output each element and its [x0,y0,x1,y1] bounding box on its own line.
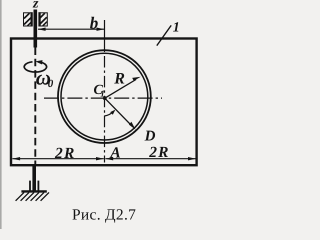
dimension b right arrow [97,28,105,31]
line C1 to D with arrow [105,98,131,125]
hole inner circle [61,53,148,140]
bottom shaft (solid) [32,165,36,191]
dimension b left arrow [38,28,46,31]
radius R arrow [105,80,136,99]
horizontal centerline [44,97,162,99]
svg-text:b: b [90,13,99,32]
svg-text:Рис. Д2.7: Рис. Д2.7 [72,206,136,223]
svg-text:2R: 2R [148,144,168,161]
ground line [21,190,46,192]
svg-text:1: 1 [173,21,180,36]
svg-text:1: 1 [100,89,105,99]
leader line to label 1 [157,25,171,45]
plate 1 (rectangle) [11,39,197,166]
top bearing left block [24,12,33,26]
bottom bearing stub left [29,181,31,191]
ground hatching [16,192,49,200]
dimension b line [38,28,104,30]
hole outer circle [58,50,151,143]
angle arc arrow [104,112,112,116]
axis of rotation (dashed, inside plate) [34,48,36,165]
vertical centerline [104,20,106,52]
rotation arrow omega0 (ellipse) [24,62,46,72]
dimension 2R left line [12,158,103,160]
svg-text:D: D [144,128,156,144]
svg-text:2R: 2R [54,145,74,162]
center C1 dot [103,96,107,100]
svg-text:R: R [113,70,125,87]
svg-text:0: 0 [48,78,54,90]
bottom bearing stub right [37,181,39,191]
scan edge left [0,0,2,229]
dimension 2R right line [105,158,195,160]
top bearing right block [39,12,47,26]
shaft (top, solid) [33,10,37,48]
